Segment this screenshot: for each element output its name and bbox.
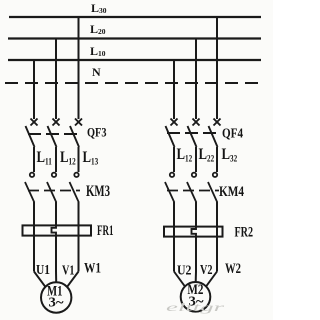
wire drop from L30 to QF3 pole 3 [78,17,80,119]
wire drop from L20 to QF4 pole 2 [195,39,197,120]
thermal relay FR1 heater jog (middle phase) [52,225,57,235]
wire V1 into motor M1 [55,272,57,283]
wire through FR1 pole 3 [78,226,80,272]
circuit breaker QF4 pole 1 [166,119,178,148]
wire bend U1 into motor M1 [34,272,46,288]
wire V2 into motor M2 [195,272,197,283]
svg-text:QF3: QF3 [87,126,107,140]
contactor KM4 pole 1 [165,173,174,203]
thermal relay FR2 heater jog (middle phase) [192,227,197,237]
wire KM3 pole 3 to FR1 [78,202,80,226]
thermal relay FR1 body [23,225,92,235]
wire bus L20 [8,37,261,39]
svg-text:KM4: KM4 [219,184,244,200]
svg-text:W1: W1 [84,260,101,276]
wire through FR1 pole 2 [55,236,57,272]
motor M1 body [41,282,71,312]
wire QF4 pole 1 to KM4 [173,147,175,172]
QF3 linkage (dashed) [28,133,81,135]
svg-text:KM3: KM3 [86,183,110,200]
wire QF4 pole 2 to KM4 [195,147,197,172]
wire KM4 pole 3 to FR2 [216,202,218,227]
contactor KM3 pole 1 [25,173,34,203]
wire QF4 pole 3 to KM4 [216,147,218,172]
wire KM4 pole 2 to FR2 [195,202,197,227]
contactor KM4 pole 3 [208,173,217,203]
wire bend W1 into motor M1 [67,272,79,288]
thermal relay FR2 body [164,227,223,237]
wire drop from L10 to QF4 pole 1 [173,60,175,119]
wire bend W2 into motor M2 [206,272,217,287]
wire through FR1 pole 1 [33,226,35,272]
wire drop from L20 to QF3 pole 2 [55,39,57,120]
svg-text:QF4: QF4 [222,125,243,140]
wire KM3 pole 2 to FR1 [55,202,57,226]
wire bus L10 [8,59,261,61]
wire KM4 pole 1 to FR2 [173,202,175,227]
contactor KM4 pole 2 [187,173,196,203]
svg-text:3~: 3~ [49,295,65,310]
wire bend U2 into motor M2 [174,272,185,287]
wire through FR2 pole 3 [216,227,218,272]
svg-text:elttgr: elttgr [166,300,225,314]
wire through FR2 pole 2 [195,237,197,272]
wire KM3 pole 1 to FR1 [33,202,35,226]
motor M2 body [181,282,211,312]
KM3 linkage (dashed) [28,190,80,192]
wire bus N (dashed neutral) [5,82,260,84]
circuit breaker QF4 pole 3 [209,119,221,148]
wire drop from L30 to QF4 pole 3 [216,17,218,119]
wire QF3 pole 2 to KM3 [55,147,57,172]
wire QF3 pole 3 to KM3 [78,147,80,172]
circuit breaker QF3 pole 1 [26,119,38,148]
svg-text:FR1: FR1 [97,223,114,239]
circuit breaker QF4 pole 2 [188,119,200,148]
wire QF3 pole 1 to KM3 [33,147,35,172]
svg-text:FR2: FR2 [235,224,254,240]
contactor KM3 pole 3 [70,173,79,203]
svg-text:V2: V2 [200,263,213,278]
svg-text:N: N [92,65,101,79]
wire bus L30 [9,16,261,18]
circuit breaker QF3 pole 3 [70,119,82,148]
KM4 linkage (dashed) [167,190,219,192]
svg-text:U2: U2 [177,264,192,279]
wire through FR2 pole 1 [173,227,175,272]
contactor KM3 pole 2 [47,173,56,203]
svg-text:V1: V1 [62,264,75,279]
circuit breaker QF3 pole 2 [48,119,60,148]
wire drop from L10 to QF3 pole 1 [33,60,35,119]
QF4 linkage (dashed) [167,132,221,134]
svg-text:W2: W2 [225,261,241,277]
